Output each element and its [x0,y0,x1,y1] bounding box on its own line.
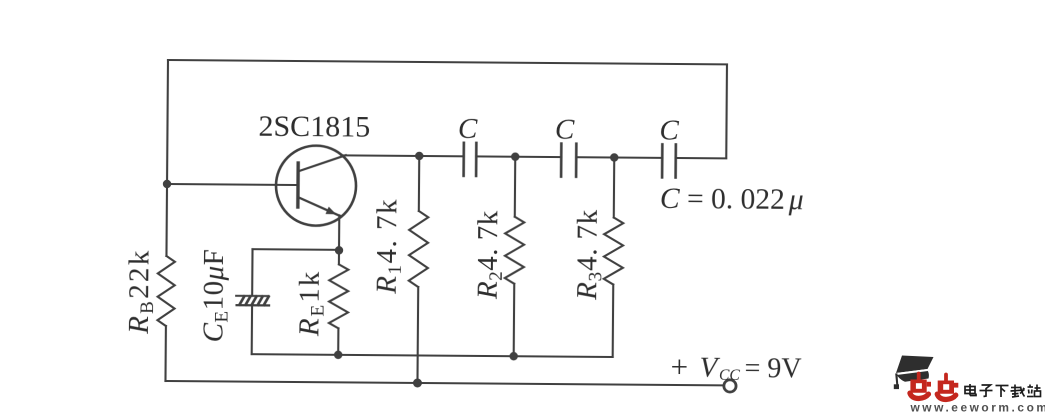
svg-text:CE10μF: CE10μF [197,249,233,343]
wire left vertical (top rail to base node to RB) [166,60,168,256]
node emitter [335,246,343,254]
svg-text:www.eeworm.com: www.eeworm.com [910,400,1045,413]
resistor RE 1k [338,250,340,264]
node R2 top [511,152,519,160]
logo text (worm 1) [910,374,931,399]
node base junction [163,180,171,188]
wire collector to C1 [341,154,463,157]
terminal VCC [724,380,736,392]
wire emitter down [338,215,340,249]
logo graduation cap [894,356,934,390]
node R1 top [415,152,423,160]
wire bottom of CE/RE loop over to R3 [252,354,613,357]
node RE bottom [334,351,342,359]
node R2 bottom [509,352,517,360]
logo text 下 [996,386,1009,398]
svg-text:C: C [555,114,575,146]
wire bottom VCC rail [165,381,723,385]
resistor R3 4.7k branch [613,158,616,218]
svg-text:R34. 7k: R34. 7k [571,209,607,301]
svg-text:R24. 7k: R24. 7k [472,210,508,300]
wire emitter node to CE branch (top of loop) [253,248,339,251]
capacitor C1 [462,143,465,176]
node R3 top [610,153,618,161]
logo text 载 [1011,385,1025,398]
svg-text:RB22k: RB22k [123,248,159,335]
svg-text:C = 0. 022μ: C = 0. 022μ [660,183,804,216]
svg-text:R14. 7k: R14. 7k [371,198,407,295]
svg-text:= 9V: = 9V [744,353,801,384]
wire CE bottom [251,305,253,354]
wire base [167,184,298,185]
capacitor CE 10uF (hatched electrolytic) [236,296,269,306]
logo text 子 [980,385,993,397]
wire top rail [168,60,727,64]
svg-text:2SC1815: 2SC1815 [258,110,370,144]
svg-text:+: + [670,349,688,384]
wire right vertical (top rail down to C3) [725,64,728,158]
wire C1 to C2 [476,155,561,158]
resistor R2 4.7k branch [514,157,517,217]
capacitor C2 [560,144,563,177]
wire RB bottom to ground rail [164,326,167,381]
logo text 站 [1027,385,1041,397]
capacitor C3 [661,144,664,177]
resistor R1 4.7k branch [418,156,421,211]
logo text (worm 2) [937,375,958,400]
svg-text:C: C [458,113,478,145]
svg-text:V: V [699,352,720,384]
svg-text:CC: CC [719,367,740,384]
svg-text:RE1k: RE1k [293,270,329,338]
node R1 bottom on VCC rail [413,378,422,387]
transistor Q1 2SC1815 [276,145,357,226]
wire C2 to C3 [576,156,662,159]
resistor RB22k [157,256,175,326]
svg-text:C: C [659,114,679,146]
logo text 电 [965,384,976,396]
